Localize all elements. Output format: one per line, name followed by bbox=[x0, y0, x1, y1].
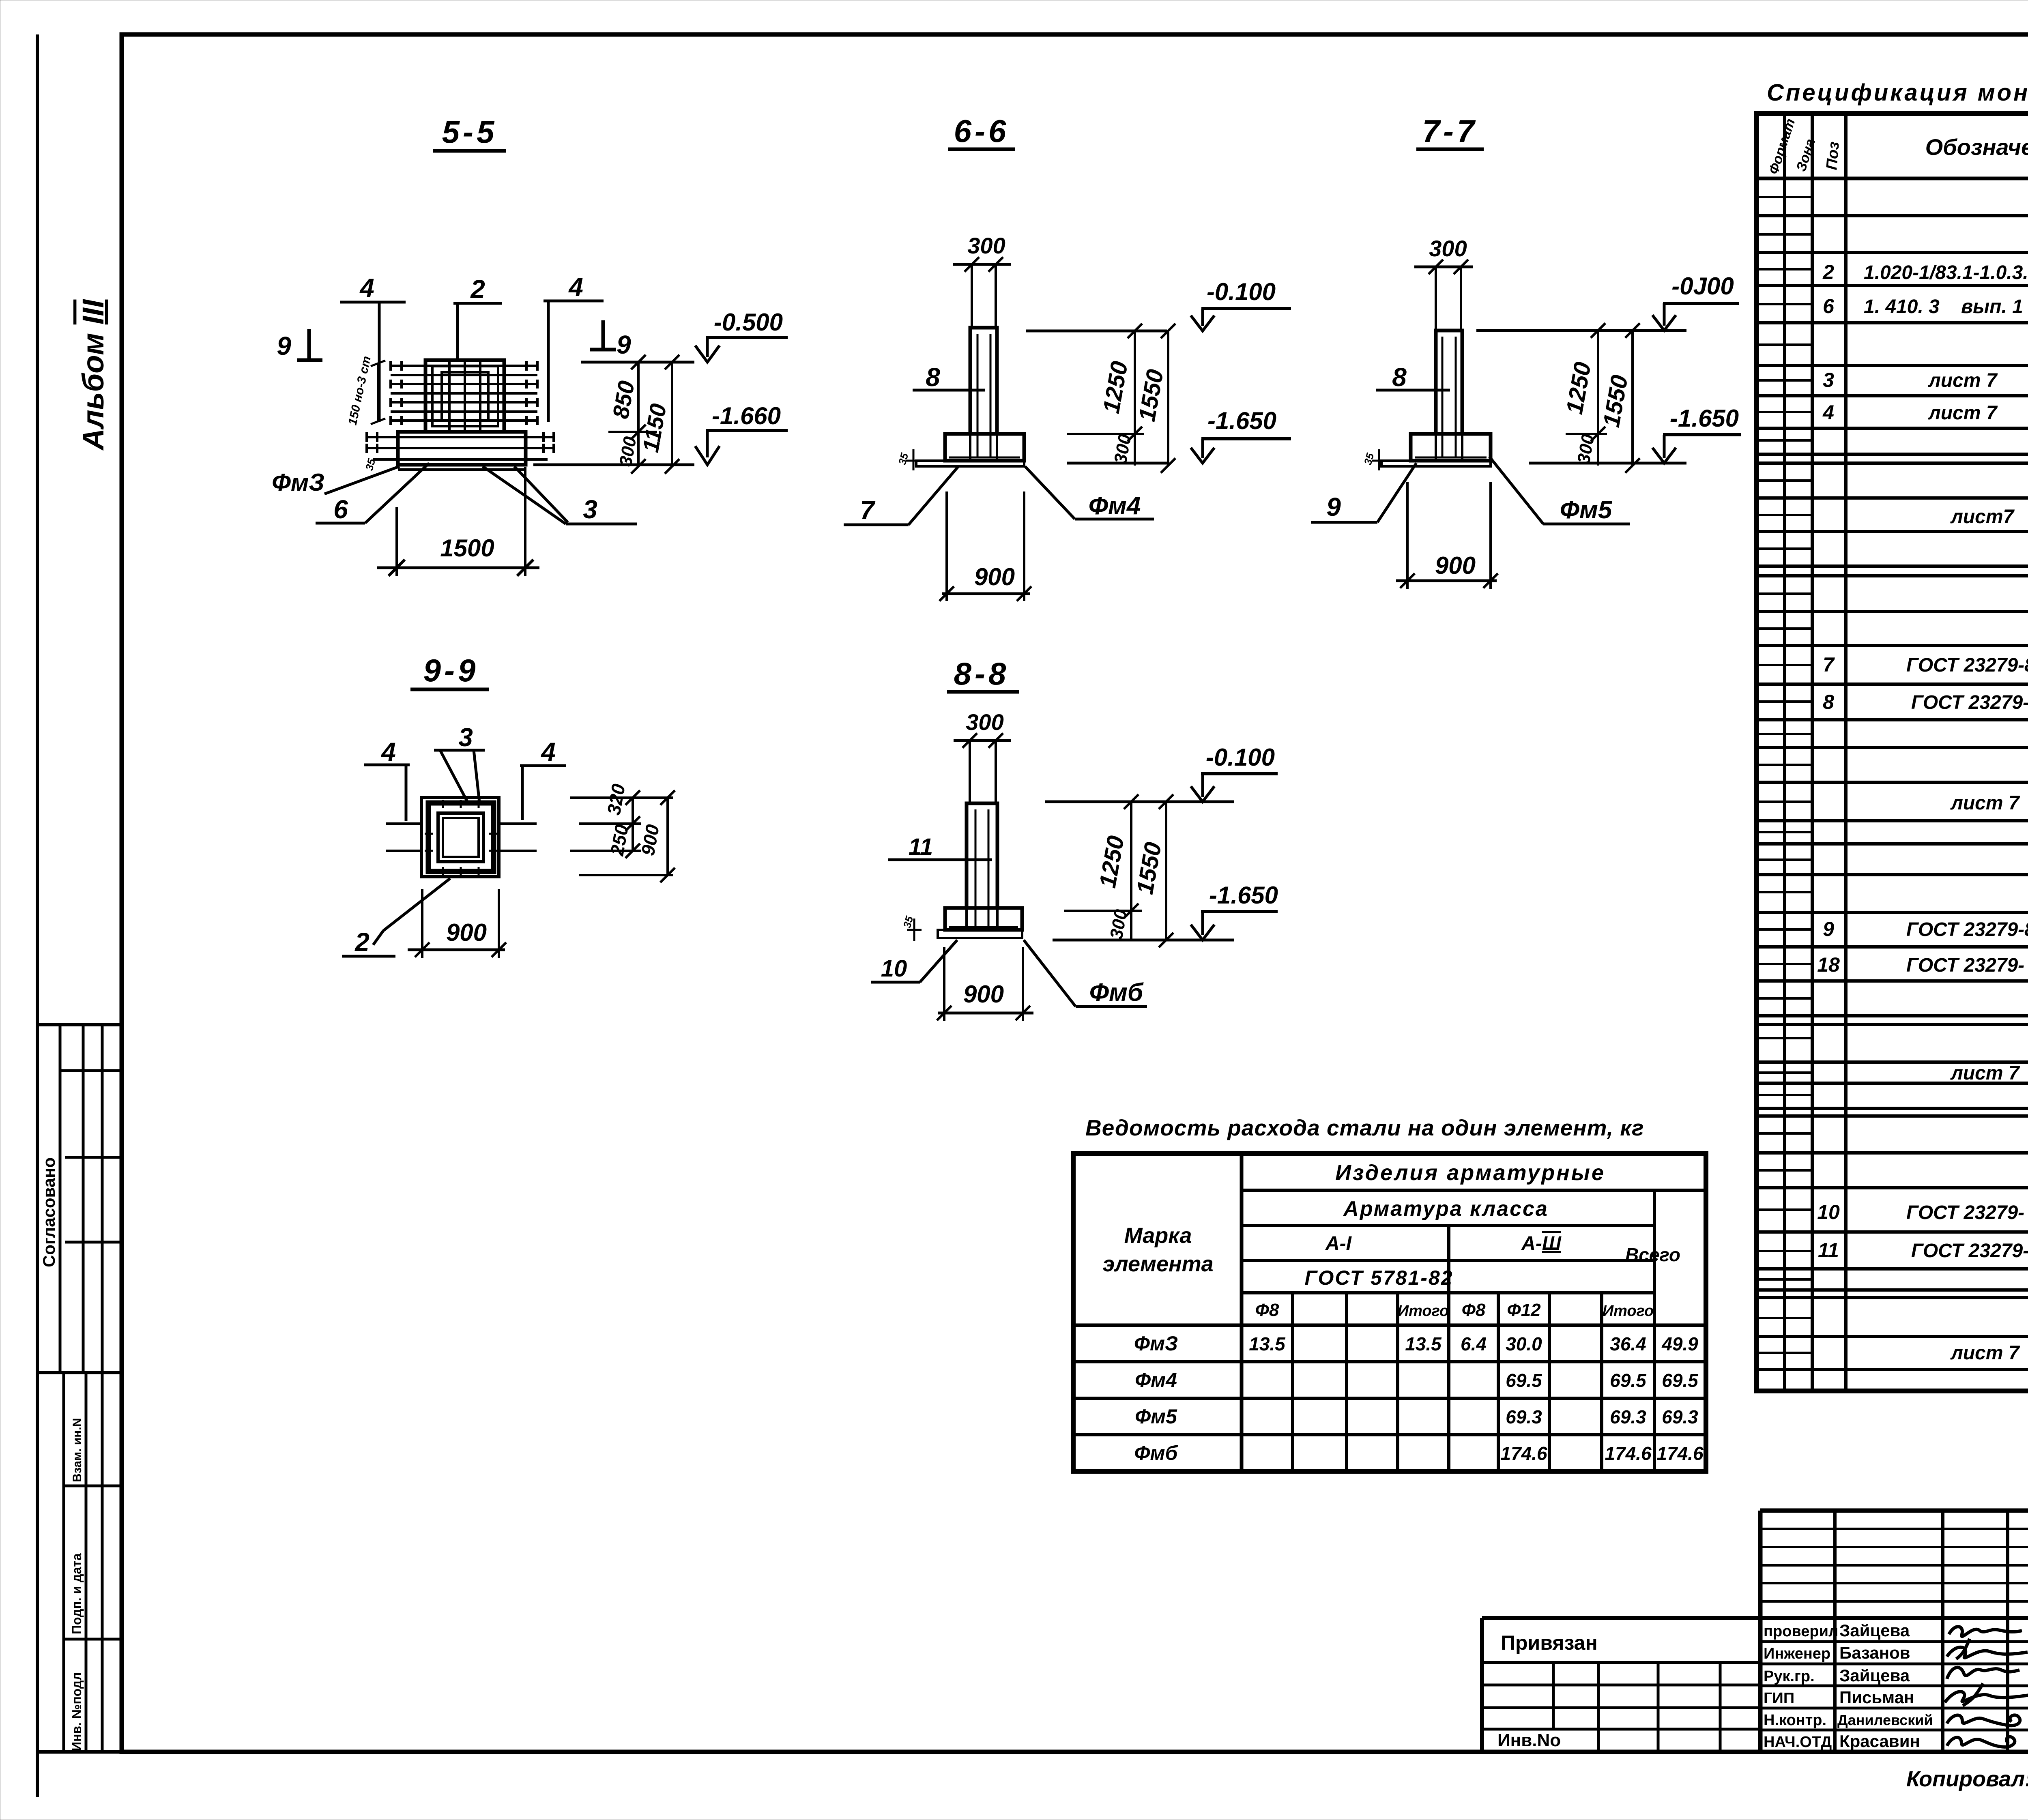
svg-text:Формат: Формат bbox=[1766, 117, 1798, 176]
vertical bars in pedestal bbox=[449, 362, 480, 430]
svg-text:5-5: 5-5 bbox=[442, 114, 498, 150]
SECTION-9-9 bbox=[342, 652, 675, 958]
svg-text:6: 6 bbox=[333, 495, 348, 524]
SECTION-7-7 bbox=[1311, 113, 1741, 589]
svg-text:НАЧ.ОТД: НАЧ.ОТД bbox=[1764, 1734, 1832, 1751]
svg-text:7-7: 7-7 bbox=[1422, 113, 1478, 149]
SECTION-8-8 bbox=[871, 656, 1278, 1021]
TITLE-BLOCK bbox=[1482, 1511, 2028, 1793]
soglasovano block verticals bbox=[59, 1025, 62, 1373]
svg-text:Итого: Итого bbox=[1603, 1303, 1654, 1320]
left bar-spacing dimension bracket bbox=[377, 363, 379, 422]
vedomost outer border bbox=[1073, 1154, 1706, 1471]
vertical dim line 850/300 bbox=[637, 362, 640, 466]
vedomost vertical marka divider bbox=[1240, 1154, 1244, 1471]
svg-text:Альбом III: Альбом III bbox=[76, 299, 110, 451]
svg-text:250: 250 bbox=[606, 823, 632, 858]
svg-text:Н.контр.: Н.контр. bbox=[1764, 1712, 1826, 1729]
svg-text:30.0: 30.0 bbox=[1506, 1333, 1542, 1354]
svg-text:Фмб: Фмб bbox=[1089, 979, 1144, 1007]
upper datum line (-0.100) bbox=[1045, 801, 1234, 803]
svg-text:1250: 1250 bbox=[1098, 359, 1133, 415]
column rebar bars bbox=[1442, 337, 1444, 457]
lower datum line (-1.650) bbox=[1053, 939, 1234, 942]
plan outer square bbox=[421, 798, 499, 877]
svg-text:8: 8 bbox=[926, 363, 940, 392]
svg-text:4: 4 bbox=[380, 737, 396, 766]
soglasovano block top line bbox=[37, 1023, 122, 1026]
svg-text:1250: 1250 bbox=[1561, 360, 1596, 416]
svg-text:900: 900 bbox=[1435, 552, 1476, 579]
svg-text:13.5: 13.5 bbox=[1249, 1333, 1286, 1354]
svg-text:9-9: 9-9 bbox=[423, 652, 479, 688]
svg-text:Зайцева: Зайцева bbox=[1839, 1666, 1910, 1685]
svg-text:10: 10 bbox=[881, 955, 907, 982]
svg-text:900: 900 bbox=[974, 563, 1015, 590]
mid tick line at footing top bbox=[608, 431, 657, 433]
footing bottom rebar line bbox=[949, 926, 1018, 928]
SECTION-5-5 bbox=[272, 114, 788, 576]
vertical dim 1550 bbox=[1167, 331, 1169, 466]
column sides into footing 8-8 bbox=[965, 908, 968, 929]
svg-text:4: 4 bbox=[540, 737, 556, 766]
svg-text:Инв.No: Инв.No bbox=[1497, 1730, 1561, 1750]
revision table verticals bbox=[1833, 1511, 1837, 1752]
svg-text:1550: 1550 bbox=[1134, 367, 1169, 423]
svg-text:300: 300 bbox=[1429, 236, 1467, 261]
tie rebar hooks right bbox=[526, 361, 537, 425]
svg-text:лист 7: лист 7 bbox=[1950, 1342, 2020, 1364]
svg-text:35: 35 bbox=[896, 451, 911, 466]
svg-text:10: 10 bbox=[1817, 1201, 1840, 1223]
svg-text:ГОСТ 23279- 85: ГОСТ 23279- 85 bbox=[1906, 955, 2028, 976]
svg-text:4: 4 bbox=[359, 273, 374, 303]
spec column verticals bbox=[1783, 114, 1786, 1391]
footing tie rows bbox=[367, 437, 554, 459]
pedestal inner cage rect bbox=[432, 366, 498, 426]
svg-text:2: 2 bbox=[1822, 261, 1834, 283]
svg-text:Зона: Зона bbox=[1793, 137, 1818, 174]
pedestal inner cage rect 2 bbox=[442, 372, 488, 420]
svg-text:174.6: 174.6 bbox=[1656, 1443, 1704, 1464]
left trim line bbox=[36, 34, 39, 1797]
footing outline bbox=[945, 803, 1022, 930]
svg-text:9: 9 bbox=[617, 330, 631, 359]
svg-text:Инженер: Инженер bbox=[1764, 1645, 1830, 1662]
vertical dim 900 right bbox=[666, 798, 669, 875]
svg-text:6: 6 bbox=[1823, 295, 1835, 318]
plan ring square bbox=[428, 803, 494, 871]
upper datum line (-0.100) bbox=[1476, 329, 1686, 332]
privyazan rows bbox=[1482, 1661, 1760, 1664]
upper datum line (-0.100) bbox=[1026, 330, 1167, 333]
svg-text:1500: 1500 bbox=[440, 534, 494, 562]
soglasovano row line 2 bbox=[65, 1156, 122, 1159]
column outline bbox=[1436, 331, 1462, 434]
svg-text:Фм4: Фм4 bbox=[1135, 1369, 1177, 1391]
svg-text:69.3: 69.3 bbox=[1506, 1406, 1542, 1427]
svg-text:7: 7 bbox=[860, 496, 876, 525]
mid tick line footing top bbox=[1566, 433, 1607, 435]
svg-text:320: 320 bbox=[603, 782, 629, 817]
column sides into footing 7-7 bbox=[1435, 434, 1437, 459]
svg-text:300: 300 bbox=[616, 435, 640, 468]
bottom frame extension to trim line bbox=[37, 1750, 122, 1754]
column rebar bars bbox=[977, 334, 979, 457]
vertical dim 1250 bbox=[1597, 331, 1599, 466]
svg-text:элемента: элемента bbox=[1102, 1252, 1213, 1276]
svg-text:900: 900 bbox=[446, 919, 487, 946]
svg-text:Ф8: Ф8 bbox=[1255, 1300, 1279, 1320]
signature squiggle 1 bbox=[1949, 1627, 2022, 1636]
mid tick line footing top bbox=[1064, 910, 1142, 912]
svg-text:Ф8: Ф8 bbox=[1462, 1300, 1486, 1320]
svg-text:-0.100: -0.100 bbox=[1207, 278, 1276, 305]
rebar section ticks on ring bbox=[425, 800, 497, 875]
svg-text:8-8: 8-8 bbox=[954, 656, 1010, 691]
svg-text:Красавин: Красавин bbox=[1839, 1732, 1920, 1751]
vedomost header band lines bbox=[1242, 1189, 1706, 1192]
mid tick line footing top bbox=[1067, 433, 1144, 435]
plan innermost square bbox=[443, 818, 479, 857]
vertical dim 320/250 bbox=[632, 798, 634, 851]
footing bottom rebar line bbox=[1415, 457, 1487, 459]
svg-text:-1.660: -1.660 bbox=[712, 402, 781, 429]
tie rebar rows through pedestal bbox=[391, 366, 537, 421]
tie extension lines right bbox=[498, 822, 537, 825]
svg-text:лист7: лист7 bbox=[1950, 506, 2015, 528]
base slab bbox=[938, 930, 1022, 938]
svg-text:Спецификация монолитных уч: Спецификация монолитных участков ФмЗ÷Фмб bbox=[1767, 79, 2028, 106]
vertical dim 1250 bbox=[1130, 802, 1132, 940]
footing bottom rebar line bbox=[949, 457, 1020, 459]
svg-text:-0.100: -0.100 bbox=[1206, 744, 1275, 771]
stamp row divider 2 bbox=[64, 1638, 122, 1641]
column outline bbox=[970, 328, 997, 434]
svg-text:1. 410. 3 вып. 1: 1. 410. 3 вып. 1 bbox=[1864, 296, 2023, 318]
svg-text:1150: 1150 bbox=[638, 402, 671, 455]
svg-text:Подп. и дата: Подп. и дата bbox=[69, 1553, 84, 1634]
spec header bottom line bbox=[1757, 177, 2028, 180]
svg-text:4: 4 bbox=[1822, 401, 1834, 424]
bottom stamp verticals bbox=[62, 1373, 65, 1752]
svg-text:Ведомость расхода стали на о: Ведомость расхода стали на один элемент,… bbox=[1085, 1115, 1644, 1140]
vertical dim line 1150 bbox=[671, 362, 673, 466]
svg-text:ГИП: ГИП bbox=[1764, 1690, 1794, 1707]
svg-text:-1.650: -1.650 bbox=[1209, 882, 1278, 909]
plan inner square bbox=[438, 813, 483, 862]
svg-text:-1.650: -1.650 bbox=[1207, 407, 1276, 434]
column sides into footing 6-6 bbox=[969, 434, 971, 459]
svg-text:лист 7: лист 7 bbox=[1950, 1062, 2020, 1084]
svg-text:Фм4: Фм4 bbox=[1089, 492, 1141, 520]
signature squiggle 6 bbox=[1947, 1737, 2015, 1747]
svg-text:лист 7: лист 7 bbox=[1928, 402, 1998, 424]
svg-text:ФмЗ: ФмЗ bbox=[1134, 1332, 1178, 1355]
signature squiggle 3 bbox=[1947, 1668, 2019, 1679]
upper datum line (-0.500 level) bbox=[581, 361, 694, 364]
signature squiggle 4 bbox=[1945, 1683, 2028, 1706]
svg-text:2: 2 bbox=[354, 927, 370, 957]
vertical dim 1550 bbox=[1631, 331, 1634, 466]
svg-text:Фмб: Фмб bbox=[1134, 1442, 1179, 1464]
footing outline bbox=[398, 432, 526, 465]
svg-text:А-Ш: А-Ш bbox=[1521, 1233, 1562, 1254]
svg-text:Ф12: Ф12 bbox=[1507, 1300, 1541, 1320]
svg-text:-1.650: -1.650 bbox=[1670, 405, 1739, 432]
svg-text:69.3: 69.3 bbox=[1610, 1406, 1646, 1427]
svg-text:Зайцева: Зайцева bbox=[1839, 1621, 1910, 1640]
narrow column ladder lines bbox=[1757, 197, 1812, 1353]
svg-text:1550: 1550 bbox=[1132, 840, 1167, 896]
SECTION-6-6 bbox=[844, 113, 1291, 601]
svg-text:1250: 1250 bbox=[1094, 834, 1129, 890]
svg-text:А-I: А-I bbox=[1325, 1233, 1352, 1254]
svg-text:Изделия арматурные: Изделия арматурные bbox=[1335, 1161, 1605, 1185]
svg-text:8: 8 bbox=[1823, 691, 1834, 713]
vertical dim 1250 bbox=[1134, 331, 1136, 466]
svg-text:1550: 1550 bbox=[1598, 373, 1633, 429]
svg-text:ГОСТ 23279- 85: ГОСТ 23279- 85 bbox=[1906, 1202, 2028, 1223]
base slab bbox=[1381, 461, 1491, 466]
svg-text:18: 18 bbox=[1817, 953, 1840, 976]
svg-text:ФмЗ: ФмЗ bbox=[272, 469, 324, 496]
lower datum line (-1.650) bbox=[1067, 462, 1169, 465]
svg-text:лист 7: лист 7 bbox=[1950, 792, 2020, 814]
svg-text:69.5: 69.5 bbox=[1662, 1370, 1699, 1391]
svg-text:2: 2 bbox=[470, 275, 485, 304]
svg-text:8: 8 bbox=[1392, 363, 1407, 392]
svg-text:6.4: 6.4 bbox=[1461, 1333, 1487, 1354]
stamp row divider 1 bbox=[64, 1485, 122, 1487]
svg-text:174.6: 174.6 bbox=[1605, 1443, 1652, 1464]
pedestal outline bbox=[425, 360, 504, 432]
privyazan block left border bbox=[1480, 1618, 1484, 1752]
svg-text:49.9: 49.9 bbox=[1661, 1333, 1698, 1354]
svg-text:Взам. ин.N: Взам. ин.N bbox=[71, 1418, 84, 1482]
revision table rows bbox=[1760, 1528, 2028, 1530]
svg-text:Всего: Всего bbox=[1625, 1244, 1680, 1265]
svg-text:7: 7 bbox=[1823, 653, 1835, 676]
svg-text:Обозначение: Обозначение bbox=[1925, 134, 2028, 160]
right dim extension lines bbox=[570, 796, 673, 799]
svg-text:300: 300 bbox=[967, 233, 1005, 258]
soglasovano row line 3 bbox=[65, 1241, 122, 1244]
signature squiggle 2 bbox=[1947, 1639, 2028, 1659]
svg-text:Фм5: Фм5 bbox=[1560, 496, 1613, 524]
svg-text:-0J00: -0J00 bbox=[1671, 273, 1734, 300]
column rebar bars bbox=[975, 809, 977, 931]
svg-text:Фм5: Фм5 bbox=[1135, 1405, 1177, 1428]
svg-text:Арматура класса: Арматура класса bbox=[1343, 1197, 1549, 1221]
svg-text:300: 300 bbox=[1574, 432, 1598, 465]
svg-text:Инв. №подл: Инв. №подл bbox=[69, 1672, 84, 1751]
svg-text:Привязан: Привязан bbox=[1501, 1631, 1598, 1654]
base slab bbox=[916, 461, 1024, 466]
VEDOMOST-TABLE bbox=[1073, 1115, 1706, 1471]
spec outer border bbox=[1757, 114, 2028, 1391]
svg-text:-0.500: -0.500 bbox=[714, 309, 783, 336]
SPEC-TABLE bbox=[1757, 79, 2028, 1391]
svg-text:4: 4 bbox=[568, 273, 583, 302]
titleblock outer border bbox=[1760, 1509, 2028, 1513]
vertical dim 1550 bbox=[1165, 802, 1167, 940]
svg-text:ГОСТ 23279-85: ГОСТ 23279-85 bbox=[1911, 1240, 2028, 1262]
svg-text:36.4: 36.4 bbox=[1610, 1333, 1646, 1354]
svg-text:69.5: 69.5 bbox=[1610, 1370, 1647, 1391]
svg-text:300: 300 bbox=[1106, 908, 1131, 940]
tie extension lines left bbox=[386, 822, 422, 825]
signature area top line bbox=[1482, 1616, 2028, 1620]
svg-text:850: 850 bbox=[608, 379, 639, 421]
vedomost row lines bbox=[1073, 1324, 1706, 1327]
vedomost verticals subcolumns bbox=[1291, 1293, 1294, 1471]
svg-text:ГОСТ 23279-85: ГОСТ 23279-85 bbox=[1906, 655, 2028, 676]
svg-text:3: 3 bbox=[583, 495, 597, 524]
spec row band lines bbox=[1757, 216, 2028, 1369]
privyazan verticals bbox=[1552, 1663, 1555, 1729]
LEFT-STAMP-COLUMN bbox=[37, 299, 122, 1752]
svg-text:9: 9 bbox=[1326, 492, 1341, 522]
svg-text:Итого: Итого bbox=[1398, 1303, 1449, 1320]
bottom stamp block top line bbox=[37, 1371, 122, 1374]
footing tie hooks bbox=[367, 432, 554, 453]
svg-text:900: 900 bbox=[637, 823, 664, 857]
footing base slab line bbox=[398, 468, 526, 471]
lower datum line (-1.660 level) bbox=[533, 464, 694, 466]
svg-text:11: 11 bbox=[909, 834, 933, 860]
footing outline bbox=[1411, 331, 1491, 461]
svg-text:ГОСТ 5781-82: ГОСТ 5781-82 bbox=[1304, 1266, 1453, 1289]
svg-text:300: 300 bbox=[966, 709, 1003, 735]
svg-text:Согласовано: Согласовано bbox=[39, 1157, 58, 1267]
svg-text:900: 900 bbox=[963, 981, 1004, 1008]
svg-text:проверил: проверил bbox=[1764, 1623, 1838, 1640]
svg-text:3: 3 bbox=[1823, 369, 1834, 391]
svg-text:3: 3 bbox=[458, 723, 473, 752]
svg-text:ГОСТ 23279-85: ГОСТ 23279-85 bbox=[1911, 692, 2028, 713]
tie rebar hooks left bbox=[391, 361, 402, 425]
svg-text:1.020-1/83.1-1.0.3.0-01: 1.020-1/83.1-1.0.3.0-01 bbox=[1864, 262, 2028, 283]
lower datum line (-1.650) bbox=[1529, 462, 1686, 465]
svg-text:9: 9 bbox=[277, 331, 291, 361]
svg-text:Поз: Поз bbox=[1823, 141, 1843, 170]
svg-text:174.6: 174.6 bbox=[1500, 1443, 1547, 1464]
svg-text:69.3: 69.3 bbox=[1662, 1406, 1698, 1427]
signature squiggle 5 bbox=[1947, 1715, 2020, 1726]
svg-text:лист 7: лист 7 bbox=[1928, 370, 1998, 391]
svg-text:69.5: 69.5 bbox=[1506, 1370, 1542, 1391]
svg-text:Базанов: Базанов bbox=[1839, 1643, 1910, 1662]
svg-text:Копировал:: Копировал: bbox=[1906, 1767, 2028, 1791]
svg-text:Письман: Письман bbox=[1839, 1688, 1914, 1707]
signature rows lines bbox=[1760, 1640, 2028, 1643]
svg-text:150 но-3 ст: 150 но-3 ст bbox=[346, 355, 374, 426]
svg-text:9: 9 bbox=[1823, 918, 1834, 940]
svg-text:Рук.гр.: Рук.гр. bbox=[1764, 1668, 1815, 1685]
svg-text:11: 11 bbox=[1818, 1239, 1839, 1262]
svg-text:35: 35 bbox=[1362, 451, 1377, 466]
svg-text:13.5: 13.5 bbox=[1405, 1333, 1442, 1354]
column outline bbox=[967, 803, 997, 908]
svg-text:ГОСТ 23279-85: ГОСТ 23279-85 bbox=[1906, 919, 2028, 940]
soglasovano row line 1 bbox=[60, 1069, 122, 1072]
footing outline bbox=[945, 328, 1024, 461]
svg-text:6-6: 6-6 bbox=[954, 113, 1010, 149]
svg-text:Данилевский: Данилевский bbox=[1837, 1712, 1933, 1728]
svg-text:Марка: Марка bbox=[1124, 1223, 1192, 1248]
